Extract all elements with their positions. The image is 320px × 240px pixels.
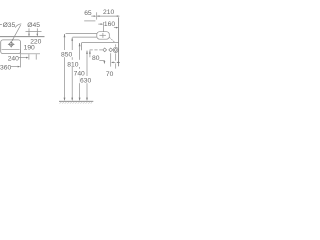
wall line (side view) — [118, 17, 120, 66]
floor hatching — [60, 102, 93, 104]
arrow pointing left into it — [112, 61, 116, 63]
label Ø35 — [0, 24, 2, 26]
tick above drain circle — [115, 44, 117, 46]
supply line dashes — [90, 49, 103, 51]
dimension line 210 to wall — [97, 15, 120, 17]
extension tick B — [35, 54, 37, 59]
dimension line 220 — [26, 31, 42, 33]
height dimension line 740 — [79, 43, 81, 100]
basin rim top line — [66, 33, 97, 35]
height label 740 — [73, 69, 87, 78]
plan view: basin outer outline — [1, 40, 21, 54]
svg-text:240: 240 — [8, 56, 19, 63]
overflow/siphon box — [97, 32, 110, 40]
height label 850 — [60, 50, 74, 59]
leader line for Ø35 — [15, 24, 21, 28]
svg-text:190: 190 — [24, 45, 35, 52]
height dimension line 630 — [86, 51, 88, 100]
plan view: wall line — [0, 36, 45, 38]
height dimension line 850 — [64, 34, 66, 100]
svg-text:360: 360 — [0, 64, 11, 71]
apron front vertical — [81, 43, 83, 51]
svg-text:810: 810 — [67, 61, 78, 68]
plan view: basin inner front edge — [2, 49, 20, 51]
short reference line left of tick — [84, 20, 95, 22]
extension tick A — [28, 54, 30, 59]
height label 810 — [67, 60, 81, 69]
apron bottom line — [82, 42, 119, 44]
height dimension line 810 — [71, 37, 73, 99]
arrow from right edge pointing left — [117, 61, 120, 63]
svg-text:210: 210 — [103, 9, 114, 16]
arrow 160 to wall — [114, 27, 117, 29]
leader with down arrow for 80 — [99, 59, 104, 61]
dashed drain diagonal — [109, 37, 114, 42]
basin underside line — [73, 36, 97, 38]
arrow for 80 pointing up to supply line — [89, 51, 91, 58]
svg-text:Ø45: Ø45 — [27, 22, 40, 29]
extension line from basin right edge — [20, 50, 22, 68]
tap hole symbol (diamond with crosshair) — [8, 41, 15, 47]
extension tick for 65/210 — [96, 12, 98, 19]
drain connection circle with diamond — [113, 47, 118, 52]
leader/extension arrows pointing down to wall line — [29, 28, 37, 36]
svg-text:70: 70 — [106, 71, 114, 78]
tap position extension line — [102, 22, 104, 32]
connection diamond 2 — [109, 48, 113, 52]
svg-text:80: 80 — [92, 55, 100, 62]
connection diamond 1 — [103, 48, 107, 52]
svg-text:160: 160 — [104, 21, 115, 28]
svg-text:850: 850 — [61, 52, 72, 59]
svg-text:Ø35: Ø35 — [3, 22, 16, 29]
arrow into tap extension line — [98, 23, 102, 25]
floor line — [59, 100, 93, 102]
dashed extension below drain circle — [115, 53, 117, 60]
height label 630 — [79, 76, 93, 85]
svg-text:630: 630 — [80, 78, 91, 85]
dimension line under 190 — [21, 53, 40, 55]
svg-text:65: 65 — [84, 10, 92, 17]
extension line below diamond 2 — [110, 53, 112, 66]
